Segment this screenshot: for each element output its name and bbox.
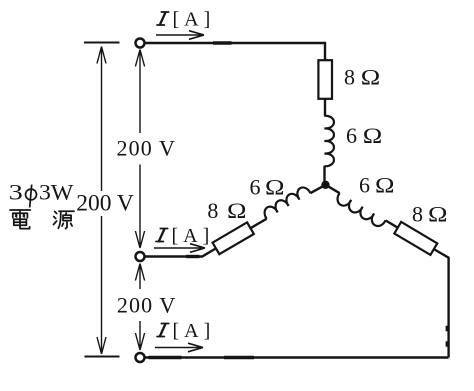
wire L1 to node (323, 166, 325, 184)
svg-text:200 V: 200 V (117, 135, 177, 160)
svg-text:8: 8 (207, 198, 218, 223)
current arrow middle (154, 244, 205, 253)
svg-text:Ω: Ω (227, 198, 247, 223)
voltage arrow upper 200V (135, 50, 144, 249)
svg-text:Ω: Ω (428, 201, 448, 226)
svg-text:Ω: Ω (363, 123, 383, 148)
kanji 源 (54, 211, 75, 228)
resistor R middle 8ohm (213, 222, 254, 254)
wire R3 to corner and down right side (433, 249, 449, 358)
wire between R1 and L1 (324, 99, 326, 116)
resistor R top 8ohm (318, 60, 332, 99)
inductor L top 6ohm (325, 116, 334, 166)
current arrow bottom (155, 343, 203, 352)
svg-text:6: 6 (250, 175, 261, 200)
svg-text:[A]: [A] (172, 225, 215, 247)
wire middle: terminal to bend to R2 (145, 248, 216, 256)
wire bottom thick segments (149, 356, 255, 359)
wire R2 to L2 (250, 219, 266, 229)
label kanji dengen (electric source) drawn as paths (10, 210, 74, 229)
svg-text:6: 6 (359, 172, 370, 197)
svg-text:Ω: Ω (361, 64, 381, 89)
terminal middle (136, 252, 145, 261)
terminal bottom (136, 353, 145, 362)
svg-text:8: 8 (412, 201, 423, 226)
current arrow top (156, 31, 204, 40)
svg-text:[A]: [A] (173, 9, 216, 31)
svg-text:200 V: 200 V (76, 191, 134, 217)
kanji 電 (10, 210, 30, 229)
wire L2 to node (310, 185, 325, 193)
wire top thick segment (213, 41, 232, 45)
inductor L middle 6ohm (262, 185, 311, 219)
tick top left (84, 42, 120, 44)
wire top: terminal to corner to resistor (144, 43, 325, 60)
resistor R right 8ohm (394, 222, 437, 255)
svg-text:Ω: Ω (265, 175, 285, 200)
label I[A] middle (156, 229, 168, 242)
svg-text:[A]: [A] (173, 320, 216, 342)
svg-text:200 V: 200 V (117, 293, 176, 318)
node star point (321, 181, 329, 189)
svg-text:3: 3 (9, 180, 23, 205)
label I[A] top (157, 12, 169, 25)
voltage arrow lower 200V (135, 264, 144, 351)
voltage arrow long left 200V (97, 47, 106, 355)
svg-text:8: 8 (344, 64, 355, 89)
wire L3 to R3 (386, 220, 399, 228)
svg-text:Ω: Ω (375, 172, 395, 197)
tick bottom left (85, 356, 120, 358)
wire node to L3 (326, 185, 340, 193)
wire right-side small nubs (446, 326, 448, 347)
label I[A] bottom (157, 324, 169, 337)
svg-text:3W: 3W (39, 180, 74, 205)
terminal top (136, 39, 145, 48)
inductor L right 6ohm (335, 193, 386, 229)
wire middle thick segment (186, 255, 200, 258)
wire bottom (145, 356, 449, 358)
svg-text:6: 6 (346, 123, 357, 148)
